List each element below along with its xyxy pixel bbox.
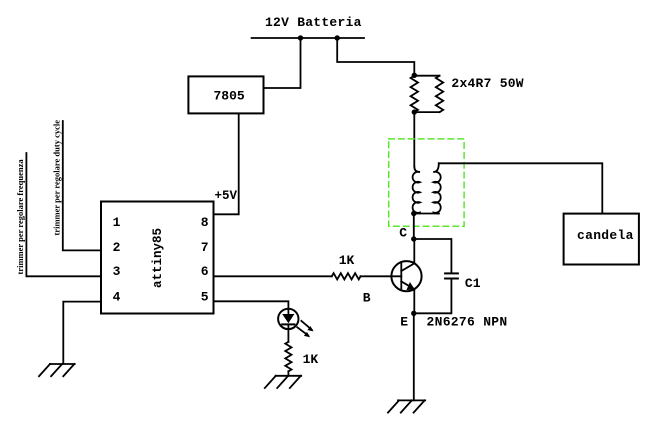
resistor R3 4R7 — [411, 76, 418, 112]
wire ballast bottom connector — [414, 111, 439, 113]
resistor R1 1K — [332, 273, 361, 279]
wire capacitor C1 to node E — [414, 279, 452, 314]
svg-text:+5V: +5V — [215, 189, 238, 203]
resistor R2 1K — [285, 342, 291, 372]
wire pin 6 to base resistor — [214, 275, 332, 277]
svg-text:trimmer per regolare frequenza: trimmer per regolare frequenza — [15, 159, 25, 275]
svg-text:E: E — [400, 315, 408, 330]
svg-text:C: C — [399, 225, 407, 240]
LED D1 — [278, 309, 298, 329]
svg-text:8: 8 — [201, 215, 209, 230]
ground pin 4 — [39, 364, 75, 376]
wire battery rail to ballast resistors — [337, 38, 414, 73]
ground LED — [265, 376, 301, 388]
svg-text:12V Batteria: 12V Batteria — [265, 15, 362, 30]
wire ballast to transformer primary — [413, 112, 415, 166]
wire battery positive rail — [252, 37, 364, 39]
junction dot battery to 7805 — [298, 35, 303, 40]
svg-text:1K: 1K — [303, 352, 319, 367]
svg-text:trimmer per regolare duty cycl: trimmer per regolare duty cycle — [52, 120, 62, 236]
wire node E to ground — [413, 313, 415, 400]
svg-text:candela: candela — [577, 228, 634, 243]
node C junction dot — [411, 236, 416, 241]
junction dot ballast bottom — [412, 109, 417, 114]
resistor R4 4R7 — [436, 76, 443, 112]
wire 7805 output to pin 8 (+5V) — [214, 113, 239, 214]
IC U1 attiny85 body — [101, 202, 214, 314]
transformer T1 primary winding — [413, 167, 420, 214]
svg-text:1: 1 — [113, 215, 121, 230]
wire pin 2 to duty-cycle trimmer — [63, 121, 101, 250]
svg-text:7805: 7805 — [214, 89, 245, 104]
svg-text:C1: C1 — [465, 276, 481, 291]
junction dot transformer bottom — [411, 211, 416, 216]
wire secondary to candela — [439, 163, 603, 213]
junction dot ballast top — [412, 73, 417, 78]
svg-text:2N6276 NPN: 2N6276 NPN — [427, 315, 508, 330]
transformer T1 secondary winding — [433, 163, 440, 213]
wire pin 3 to frequency trimmer — [26, 153, 101, 276]
wire base resistor to transistor base — [361, 275, 402, 277]
load candela box — [564, 214, 639, 265]
transformer shield box (green dashed) — [389, 139, 464, 226]
wire pin 5 to LED — [214, 301, 289, 308]
svg-text:5: 5 — [201, 289, 209, 304]
wire resistor R2 to ground — [287, 371, 289, 376]
regulator U2 7805 body — [188, 76, 263, 113]
svg-text:1K: 1K — [339, 253, 355, 268]
svg-text:2x4R7 50W: 2x4R7 50W — [451, 76, 523, 91]
node E junction dot — [411, 311, 416, 316]
transistor Q1 2N6276 — [391, 261, 421, 291]
svg-text:6: 6 — [201, 264, 209, 279]
svg-text:attiny85: attiny85 — [151, 228, 165, 288]
wire emitter to node E — [413, 289, 415, 313]
ground emitter — [388, 400, 425, 412]
wire transformer bottom connector — [414, 213, 439, 215]
capacitor C1 — [445, 273, 458, 278]
wire collector to node C — [413, 239, 415, 263]
svg-text:4: 4 — [113, 289, 121, 304]
wire battery rail to 7805 input — [264, 38, 301, 88]
svg-text:7: 7 — [201, 240, 209, 255]
wire LED cathode to resistor R2 — [287, 329, 289, 342]
svg-text:B: B — [363, 291, 371, 306]
wire ballast top connector — [414, 75, 439, 77]
svg-text:3: 3 — [113, 264, 121, 279]
LED light emission arrows — [297, 321, 313, 337]
svg-text:2: 2 — [113, 240, 121, 255]
wire node C to capacitor C1 — [414, 239, 452, 273]
wire transformer bottom to node C — [413, 214, 415, 240]
junction dot battery to ballast — [335, 35, 340, 40]
wire pin 4 to ground — [63, 302, 101, 364]
